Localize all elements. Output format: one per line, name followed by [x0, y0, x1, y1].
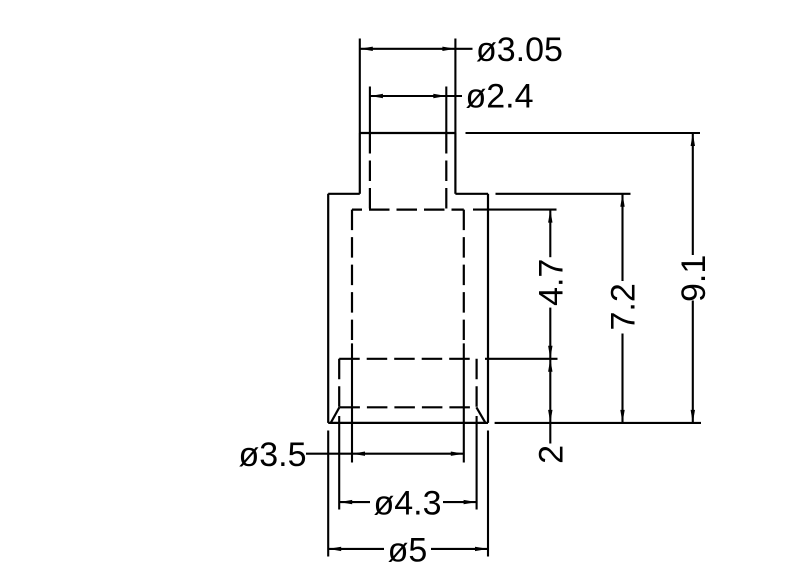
svg-text:7.2: 7.2: [605, 283, 643, 330]
arrowhead ø4.3 left: [339, 500, 352, 504]
extension line: ø3.5 left: [351, 343, 353, 462]
extension line: ø3.5 right: [463, 343, 465, 462]
arrowhead 2 top: [548, 359, 552, 372]
hidden line: counterbore ø4.3 right: [476, 359, 478, 408]
hidden line: bore top: [352, 209, 464, 211]
svg-text:2: 2: [532, 445, 570, 464]
hidden line: counterbore ø4.3 left: [338, 359, 340, 408]
part outline: top cylinder top face: [360, 132, 456, 134]
hidden line: bore ø2.4 right: [445, 133, 447, 210]
extension line: ø4.3 right: [476, 416, 478, 510]
dimension line ø3.5 with leader: [306, 453, 464, 455]
arrowhead 9.1 top: [691, 133, 695, 146]
extension line: ø5 left: [327, 431, 329, 557]
arrowhead ø3.5 right: [451, 452, 464, 456]
extension line: bore top for 4.7: [473, 209, 557, 211]
arrowhead ø3.5 left: [352, 452, 365, 456]
part outline: shoulder left: [328, 193, 360, 195]
arrowhead 4.7 bottom: [548, 346, 552, 359]
dimension line 9.1 upper part: [692, 133, 694, 255]
part outline: top cylinder left side: [359, 133, 361, 194]
extension line: shoulder for 7.2: [496, 193, 631, 195]
part outline: bottom chamfer left: [331, 407, 340, 423]
dimension line ø4.3 right part: [443, 501, 477, 503]
extension line: ø3.05 right: [454, 39, 456, 134]
arrowhead ø5 left: [328, 547, 341, 551]
extension line: step for 4.7 and 2: [485, 358, 558, 360]
arrowhead 7.2 top: [620, 194, 624, 207]
hidden line: counterbore step: [339, 358, 476, 360]
dimension line ø5 left part: [328, 548, 384, 550]
part outline: bottom face: [328, 422, 488, 424]
dimension line 4.7 lower part: [549, 308, 551, 359]
dimension line 9.1 lower part: [692, 301, 694, 423]
part outline: top cylinder right side: [454, 133, 456, 194]
svg-text:ø2.4: ø2.4: [466, 78, 534, 116]
svg-text:ø3.05: ø3.05: [476, 31, 563, 69]
dimension line 7.2 upper part: [621, 194, 623, 281]
dimension line ø2.4: [370, 95, 462, 97]
part outline: shoulder right: [455, 193, 488, 195]
hidden line: counterbore bottom: [339, 406, 476, 408]
arrowhead ø3.05 left: [360, 47, 373, 51]
arrowhead ø2.4 right: [433, 94, 446, 98]
hidden line: bore ø3.5 left: [351, 210, 353, 340]
arrowhead ø5 right: [475, 547, 488, 551]
extension line: bottom face for 2 7.2 9.1: [495, 422, 701, 424]
arrowhead ø4.3 right: [464, 500, 477, 504]
extension line: part top for 9.1: [466, 132, 701, 134]
svg-text:9.1: 9.1: [675, 255, 713, 302]
hidden line: bore ø2.4 left: [369, 133, 371, 210]
svg-text:ø3.5: ø3.5: [238, 436, 306, 474]
dimension line 7.2 lower part: [621, 334, 623, 423]
arrowhead 2 bottom: [548, 410, 552, 423]
extension line: ø2.4 left: [369, 87, 371, 134]
dimension line ø4.3 left part: [339, 501, 370, 503]
dimension line ø5 right part: [431, 548, 488, 550]
extension line: ø3.05 left: [359, 39, 361, 134]
dimension line 4.7 upper part: [549, 210, 551, 258]
part outline: bottom chamfer right: [476, 407, 485, 423]
extension line: ø4.3 left: [338, 416, 340, 510]
arrowhead ø3.05 right: [442, 47, 455, 51]
svg-text:4.7: 4.7: [532, 259, 570, 306]
dimension line ø3.05: [360, 48, 473, 50]
svg-text:ø4.3: ø4.3: [373, 485, 441, 523]
part outline: body left side: [327, 194, 329, 423]
svg-text:ø5: ø5: [388, 531, 428, 569]
extension line: ø2.4 right: [445, 87, 447, 134]
dimension line 2: [549, 359, 551, 444]
arrowhead 4.7 top: [548, 210, 552, 223]
arrowhead ø2.4 left: [370, 94, 383, 98]
arrowhead 9.1 bottom: [691, 410, 695, 423]
hidden line: bore ø3.5 right: [463, 210, 465, 340]
extension line: ø5 right: [487, 431, 489, 557]
arrowhead 7.2 bottom: [620, 410, 624, 423]
part outline: body right side: [487, 194, 489, 423]
